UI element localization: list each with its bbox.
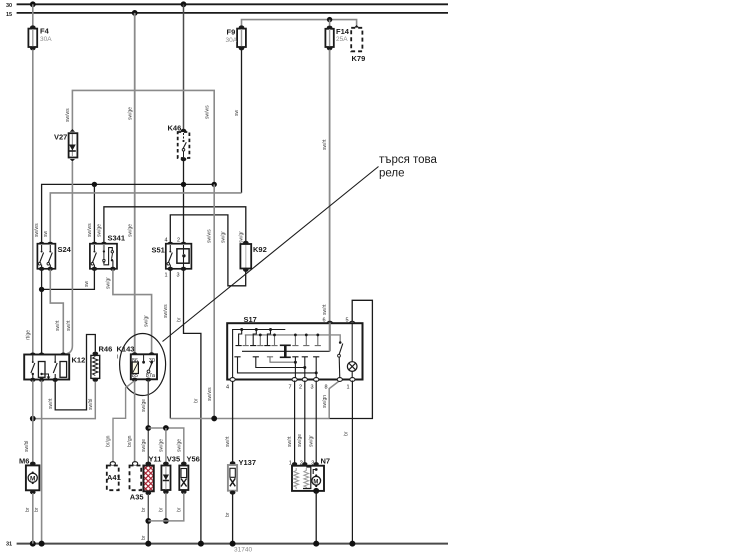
lamp symbol <box>347 362 357 372</box>
upper prongs from gray bus <box>243 335 321 346</box>
fuse F4 <box>28 25 52 50</box>
svg-text:br: br <box>141 507 147 512</box>
svg-text:1: 1 <box>165 272 168 278</box>
I-beam contact bridge <box>280 345 291 357</box>
svg-text:br: br <box>141 535 147 540</box>
svg-text:sw/rt: sw/rt <box>287 436 293 447</box>
wire V27 output down with curve into K12 pin3 <box>66 162 72 354</box>
svg-text:sw/ws: sw/ws <box>207 387 213 401</box>
svg-text:M: M <box>313 479 318 485</box>
pin6 riser <box>329 323 331 351</box>
wire V35 top stub <box>165 428 167 463</box>
svg-text:br: br <box>158 507 164 512</box>
relay K79 <box>351 25 365 63</box>
svg-text:sw/ws: sw/ws <box>205 105 211 119</box>
svg-text:sw/ge: sw/ge <box>141 439 147 452</box>
svg-text:br: br <box>344 431 350 436</box>
wire K12 pin A down to M6 <box>32 381 34 463</box>
wire Y11 to bus31 <box>147 494 149 544</box>
svg-text:sw/gr: sw/gr <box>309 435 315 447</box>
svg-text:sw/ws: sw/ws <box>207 229 213 243</box>
relay K46 <box>168 124 190 162</box>
pin4 riser and dark top bus <box>233 330 286 380</box>
gray bus <box>245 335 340 342</box>
svg-text:F9: F9 <box>227 28 236 37</box>
wire M6 to bus31 <box>32 493 34 544</box>
svg-text:sw/gn: sw/gn <box>322 395 328 408</box>
wire S24 pin1 down to K12 <box>41 270 43 355</box>
svg-text:sw/bl: sw/bl <box>88 399 94 410</box>
svg-text:S24: S24 <box>58 245 72 254</box>
resistor R46 <box>91 345 112 382</box>
svg-text:sw/rt: sw/rt <box>66 320 72 331</box>
motor M6 <box>19 457 39 495</box>
wire S51 pin1 down to line F <box>169 270 171 419</box>
svg-text:Y11: Y11 <box>149 455 162 464</box>
wire line C (S341 pin2 to K92 top) <box>104 207 246 244</box>
wire bus30 to F4 <box>32 4 34 26</box>
solenoid valve Y11 <box>143 455 161 496</box>
upper prongs from dark bus <box>236 330 271 346</box>
node bus31 / Y11 <box>145 541 151 547</box>
diode V27 <box>54 129 77 162</box>
svg-text:sw/ge: sw/ge <box>127 224 133 237</box>
switch arm to pin8 <box>339 341 342 344</box>
wire K143 pin87a down to Y11 <box>147 381 149 463</box>
switch S24 <box>37 242 71 271</box>
wire S17 pin7 to N7 pin1 <box>294 381 296 466</box>
wire S17 pin4 down to Y137 <box>232 381 234 463</box>
svg-text:K12: K12 <box>72 356 86 365</box>
node bus31 / Y137 <box>230 541 236 547</box>
wire K12 pin B down to bus31 <box>41 381 43 544</box>
diode V35 <box>161 455 180 494</box>
svg-text:S51: S51 <box>152 246 165 255</box>
blower resistor unit N7 <box>289 457 330 494</box>
svg-text:br/gn: br/gn <box>127 435 133 447</box>
svg-text:K143: K143 <box>117 345 135 354</box>
svg-text:A41: A41 <box>107 473 121 482</box>
fuse F9 <box>226 25 246 50</box>
svg-text:4: 4 <box>226 385 229 391</box>
svg-text:S341: S341 <box>108 234 126 243</box>
node branch / V35 <box>163 425 169 431</box>
svg-text:sw/gr: sw/gr <box>144 315 150 327</box>
wire F9 output down to line B <box>241 50 243 193</box>
wire F14 stub <box>329 20 331 27</box>
node bus30/F4 junction <box>30 1 36 7</box>
svg-text:sw/ge: sw/ge <box>176 439 182 452</box>
svg-text:30A: 30A <box>40 36 52 43</box>
wire line F left (gray part) <box>170 418 329 420</box>
wire K143 pin85 branch to A41 <box>113 382 134 463</box>
node bus15/sw-ge junction <box>132 10 138 16</box>
wire S24 pin2 elbow down to K12 pin3 <box>50 270 63 355</box>
svg-text:sw/ge: sw/ge <box>158 439 164 452</box>
relay K143 <box>117 345 158 382</box>
svg-text:sw/rt: sw/rt <box>55 320 61 331</box>
svg-text:1: 1 <box>347 385 350 391</box>
wire S17 pin3 to N7 pin3 <box>315 381 317 466</box>
svg-text:rt/ge: rt/ge <box>26 330 32 340</box>
switch S341 <box>90 234 125 271</box>
node line A / K46 <box>181 182 186 187</box>
wire N7 to bus31 <box>315 491 317 544</box>
wire S17 pin8 elbow to line F <box>329 381 340 419</box>
svg-text:търся това: търся това <box>379 154 438 166</box>
node bus31 / N7 <box>313 541 319 547</box>
node bus31 / S51 wire <box>198 541 204 547</box>
svg-text:25A: 25A <box>336 36 348 43</box>
svg-text:br: br <box>194 398 200 403</box>
wire Y56 bottom elbow to join <box>148 493 184 521</box>
svg-text:8: 8 <box>325 385 328 391</box>
bus 30 wire <box>17 3 448 5</box>
svg-text:br/gn: br/gn <box>106 435 112 447</box>
svg-text:3: 3 <box>311 385 314 391</box>
svg-text:sw/gr: sw/gr <box>238 231 244 243</box>
svg-text:br: br <box>34 507 40 512</box>
svg-text:sw/rt: sw/rt <box>322 304 328 315</box>
svg-text:br: br <box>225 512 231 517</box>
svg-text:sw: sw <box>234 110 240 117</box>
svg-text:sw/gr: sw/gr <box>220 231 226 243</box>
svg-text:F4: F4 <box>40 27 50 36</box>
switch S51 <box>152 238 192 279</box>
svg-text:R46: R46 <box>99 345 113 354</box>
wire S51 pin3 down to bus31 (with jog) <box>184 270 201 544</box>
wire S17 pin2 to N7 pin2 <box>304 381 306 466</box>
wire line A (node to S24/S341/K46/sw-ws column) <box>42 184 215 243</box>
relay K12 <box>24 353 85 382</box>
node feeder/F14 junction <box>327 17 332 22</box>
svg-text:7: 7 <box>289 385 292 391</box>
wire sw/ws long column (y90 to line F) <box>213 184 215 418</box>
svg-text:2: 2 <box>299 385 302 391</box>
svg-text:sw/ws: sw/ws <box>87 223 93 237</box>
node S24-column / S341 branch <box>39 287 44 292</box>
node line F / sw-ws column <box>211 416 217 422</box>
svg-text:sw/rt: sw/rt <box>322 139 328 150</box>
node bus31 / K12 pinB <box>39 541 45 547</box>
bus 15 wire <box>17 12 448 14</box>
svg-text:31: 31 <box>6 542 12 548</box>
wire bus15 down to K143 pin86 <box>134 13 136 354</box>
wire Y137 to bus31 <box>232 494 234 544</box>
svg-text:30: 30 <box>6 3 12 9</box>
svg-text:sw/rt: sw/rt <box>225 436 231 447</box>
wire S341 pin bottom-left to S24 column <box>42 270 95 290</box>
svg-text:sw/ge: sw/ge <box>127 107 133 120</box>
svg-text:V35: V35 <box>167 455 180 464</box>
svg-text:sw/rt: sw/rt <box>48 398 54 409</box>
svg-text:M6: M6 <box>19 457 29 466</box>
control unit A35 <box>130 462 144 502</box>
wire F14 output down to S17 pin6 <box>329 50 331 323</box>
lower prongs <box>234 357 319 379</box>
wire line B (F9 to S24 pin2) <box>50 193 241 244</box>
wire K46 output down to S51 pin2 <box>183 161 185 244</box>
svg-text:sw/ws: sw/ws <box>34 223 40 237</box>
wire S17 pin1 down to bus31 <box>351 381 353 544</box>
wire line F right (dark part) up to S17 pin5 loop <box>329 300 372 418</box>
node line A / S341 <box>92 182 97 187</box>
svg-text:4: 4 <box>165 238 168 244</box>
wire line D (S51 pin4 to K92 bottom) <box>170 215 245 286</box>
svg-text:Y56: Y56 <box>187 455 200 464</box>
node join / V35 <box>163 518 169 524</box>
node Y11/V35/Y56 join <box>145 518 151 524</box>
svg-text:sw/ge: sw/ge <box>96 224 102 237</box>
wire F4 output down to K12 pin <box>32 50 34 355</box>
svg-text:2: 2 <box>177 238 180 244</box>
node bus31 / S17 pin1 <box>349 541 355 547</box>
wire R46 bottom to line E <box>33 382 96 419</box>
svg-text:sw/bl: sw/bl <box>24 441 30 452</box>
bus 31 wire <box>17 543 448 545</box>
svg-text:31740: 31740 <box>234 547 252 553</box>
wire V35 bottom to join line <box>165 493 167 521</box>
svg-text:sw/ws: sw/ws <box>163 304 169 318</box>
svg-text:br: br <box>25 507 31 512</box>
node 87a branch <box>145 425 151 431</box>
svg-text:sw: sw <box>43 231 49 238</box>
svg-text:sw/ge: sw/ge <box>297 434 303 447</box>
node bus30/K46 junction <box>181 1 187 7</box>
svg-text:K92: K92 <box>253 245 267 254</box>
svg-text:sw/ge: sw/ge <box>141 399 147 412</box>
annotation leader line <box>163 167 379 342</box>
svg-text:V27: V27 <box>54 133 67 142</box>
wire line A down to S341 pin1 <box>93 184 95 243</box>
svg-text:реле: реле <box>379 168 405 180</box>
svg-text:sw/gr: sw/gr <box>105 277 111 289</box>
svg-text:A35: A35 <box>130 493 144 502</box>
bottom pin circles <box>230 378 235 382</box>
relay K92 <box>240 241 266 272</box>
svg-text:sw/ws: sw/ws <box>65 108 71 122</box>
middle rail <box>242 350 330 352</box>
svg-text:K79: K79 <box>352 54 366 63</box>
node line A / sw-ws column <box>212 182 217 187</box>
svg-text:sw: sw <box>84 281 90 288</box>
solenoid valve Y56 <box>179 455 200 494</box>
svg-text:N7: N7 <box>321 457 331 466</box>
wire S341 pin bottom-right to K143 pin30 <box>113 270 152 355</box>
highlight ellipse around K143 <box>120 334 166 396</box>
fuse F14 <box>325 26 349 51</box>
svg-text:br: br <box>177 317 183 322</box>
node line E / M6 column <box>30 416 36 422</box>
svg-text:br: br <box>176 507 182 512</box>
wire feeder F9/F14/K79 <box>242 20 357 27</box>
wire K143 pin85 to A35 <box>134 381 136 463</box>
svg-text:30A: 30A <box>226 37 238 44</box>
wire 87a branch to V35 and Y56 <box>148 428 184 463</box>
wire V27 top elbow to sw/ws column <box>72 90 214 184</box>
wire bus30 down to K46 <box>183 4 185 130</box>
svg-text:Y137: Y137 <box>239 458 257 467</box>
node bus31 / M6 <box>30 541 36 547</box>
svg-text:15: 15 <box>6 12 12 18</box>
svg-text:F14: F14 <box>336 27 350 36</box>
ignition switch S17 <box>226 315 363 391</box>
control unit A41 <box>107 462 121 491</box>
solenoid valve Y137 <box>228 458 256 495</box>
wire R46 top hook to K12 pin C <box>55 335 95 410</box>
svg-text:M: M <box>30 476 35 483</box>
svg-text:3: 3 <box>177 272 180 278</box>
